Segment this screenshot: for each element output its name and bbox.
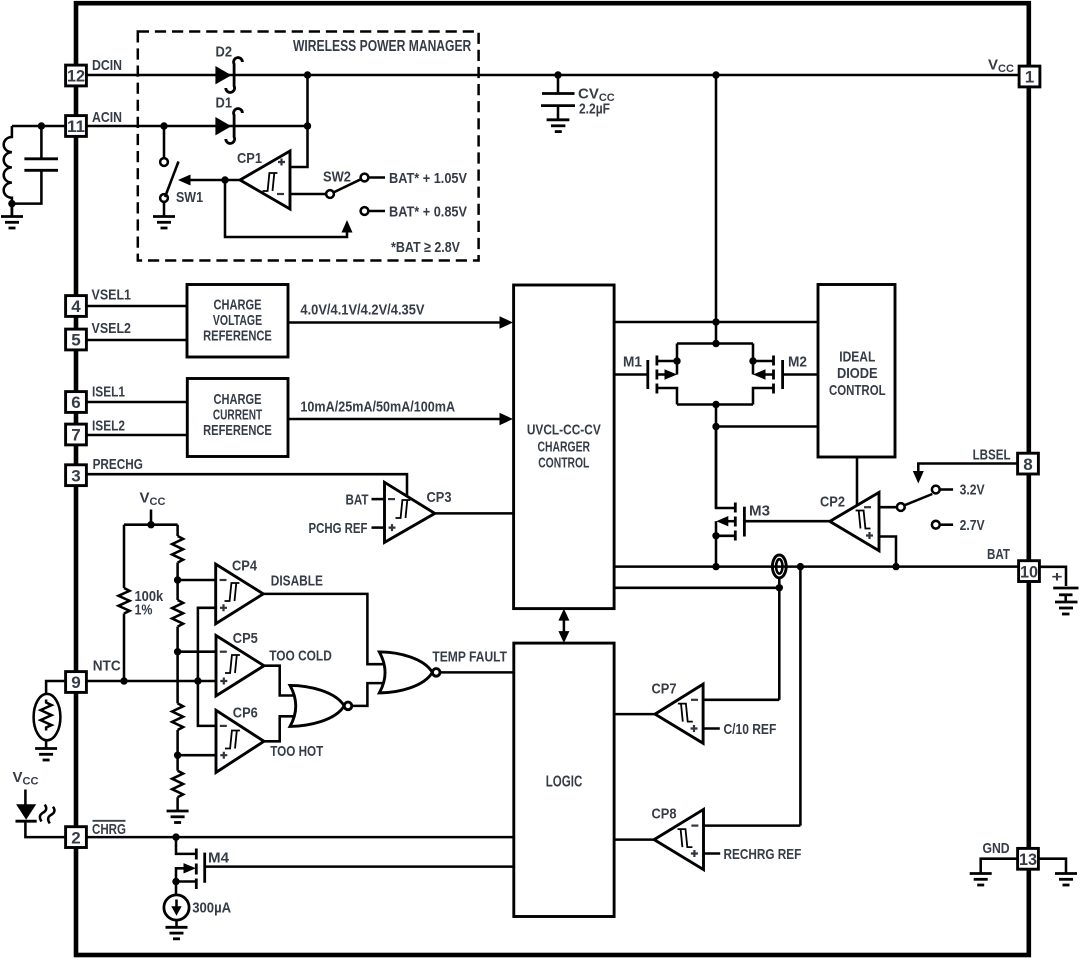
- block IDEAL DIODE CONTROL: [818, 285, 895, 458]
- ground (divider chain): [167, 811, 189, 823]
- svg-text:PCHG REF: PCHG REF: [309, 520, 368, 537]
- svg-text:300µA: 300µA: [192, 899, 231, 916]
- svg-text:VOLTAGE: VOLTAGE: [213, 312, 262, 329]
- resistor divider RA: [172, 536, 183, 563]
- wire right branch to divider chain: [176, 525, 179, 536]
- wire ACIN from pin 11 to diode node: [88, 125, 308, 128]
- wire CP7 minus to sense ring: [703, 699, 779, 702]
- wire pin 9 to thermistor: [46, 681, 64, 695]
- block LOGIC: [514, 643, 614, 916]
- wire CP7 plus stub: [703, 727, 720, 730]
- wire CP3 minus input stub: [372, 498, 385, 501]
- pin 3 PRECHG: [66, 465, 87, 486]
- switch SW1: [160, 158, 178, 202]
- op-amp CP1 (comparator, output drives SW1): [240, 151, 290, 209]
- svg-text:7: 7: [71, 426, 80, 445]
- wire CP3 output to UVCL: [435, 512, 514, 515]
- wire CP8 minus up to BAT rail: [799, 567, 802, 826]
- wire CP2 plus down to BAT rail: [879, 537, 896, 567]
- node bottom loop center: [712, 401, 719, 408]
- svg-text:CONTROL: CONTROL: [829, 382, 886, 399]
- wire VSEL2: [88, 339, 188, 342]
- node CP4 minus tap: [174, 576, 181, 583]
- wire to IDEAL DIODE CONTROL (bottom): [716, 425, 818, 428]
- wire VCC to LED: [24, 790, 27, 805]
- svg-text:WIRELESS POWER MANAGER: WIRELESS POWER MANAGER: [293, 38, 472, 55]
- wire CP5 output to NOR1: [264, 666, 298, 696]
- node DCIN-D2 junction: [304, 71, 311, 78]
- svg-text:NTC: NTC: [93, 658, 121, 675]
- svg-text:DCIN: DCIN: [92, 57, 122, 74]
- op-amp CP2 (low battery comparator): [830, 492, 879, 550]
- inductor L1 (coupling coil): [4, 126, 12, 204]
- pin 9 NTC: [66, 672, 87, 693]
- svg-text:M3: M3: [749, 503, 770, 520]
- svg-text:5: 5: [71, 331, 80, 350]
- wire pin 13 to right ground: [1039, 859, 1066, 873]
- current sense ring on BAT rail: [770, 555, 788, 578]
- svg-text:1: 1: [1025, 68, 1034, 87]
- wire CHRG line to LOGIC: [88, 836, 514, 839]
- svg-text:CP8: CP8: [652, 806, 677, 823]
- transistor M1 (PMOS): [614, 356, 677, 405]
- arrow to SW2: [342, 220, 353, 233]
- svg-text:1%: 1%: [135, 602, 153, 619]
- transistor M2 (PMOS): [753, 356, 818, 405]
- svg-text:9: 9: [71, 673, 80, 692]
- wire CP8 output to LOGIC: [614, 838, 654, 841]
- svg-text:IDEAL: IDEAL: [839, 348, 875, 365]
- svg-text:4.0V/4.1V/4.2V/4.35V: 4.0V/4.1V/4.2V/4.35V: [300, 302, 424, 319]
- wire CP1 minus input to SW2: [290, 193, 326, 196]
- battery cell BT1: [1053, 588, 1078, 601]
- resistor 100k 1%: [119, 588, 130, 614]
- svg-text:CURRENT: CURRENT: [213, 407, 262, 424]
- svg-text:11: 11: [67, 117, 85, 136]
- node VCC rail to M1/M2 branch: [712, 71, 719, 78]
- node CP2 plus junction on BAT rail: [892, 563, 899, 570]
- wire ACIN segment left of pin 11: [12, 125, 65, 128]
- svg-text:REFERENCE: REFERENCE: [203, 422, 272, 439]
- svg-text:RECHRG REF: RECHRG REF: [724, 846, 802, 863]
- svg-text:4: 4: [71, 297, 81, 316]
- svg-text:VSEL1: VSEL1: [92, 287, 132, 304]
- node L1-C1 bottom junction: [8, 200, 15, 207]
- wire NTC line (pin 9 to CP5 plus): [88, 680, 217, 683]
- transistor M3 (PMOS): [716, 427, 830, 567]
- current source 300uA: [164, 882, 189, 927]
- wire ISEL2: [88, 434, 188, 437]
- wire ISEL1: [88, 401, 188, 404]
- svg-text:CP3: CP3: [427, 489, 452, 506]
- node M1 drain junction: [673, 357, 680, 364]
- wire VCC rail (DCIN to VCC pin): [88, 74, 1019, 77]
- svg-text:BAT: BAT: [987, 546, 1010, 563]
- pin 2 CHRG: [66, 827, 87, 848]
- wire CP1 feedback to SW2 arrow: [225, 180, 347, 237]
- pin 13 GND: [1018, 848, 1039, 869]
- wire bottom loop down to ideal diode line: [715, 405, 718, 509]
- ground (CVCC): [547, 120, 570, 132]
- wire LED to pin 2: [25, 822, 64, 837]
- svg-text:BAT* + 0.85V: BAT* + 0.85V: [389, 204, 467, 221]
- svg-text:VSEL2: VSEL2: [92, 320, 132, 337]
- wire VSEL1: [88, 305, 188, 308]
- wire charge current setting to UVCL control: [288, 418, 505, 421]
- svg-text:DISABLE: DISABLE: [271, 572, 323, 589]
- resistor divider RB: [172, 600, 183, 627]
- ground (thermistor): [35, 749, 57, 761]
- wire CP6 plus input: [178, 754, 216, 757]
- wire CP2 minus to selector: [879, 506, 897, 509]
- svg-text:DIODE: DIODE: [837, 365, 878, 382]
- svg-text:2: 2: [71, 828, 80, 847]
- wire M1/M2 bottom loop: [677, 403, 753, 406]
- wire NOR1 output to NOR2: [352, 683, 388, 706]
- svg-text:10: 10: [1020, 562, 1038, 581]
- ground (coil network): [1, 204, 23, 228]
- node M4 drain junction: [172, 833, 179, 840]
- svg-text:CONTROL: CONTROL: [538, 455, 589, 472]
- wire CP3 plus input stub: [372, 526, 385, 529]
- capacitor CVCC 2.2uF: [541, 75, 575, 119]
- thermistor RNTC: [34, 694, 61, 740]
- wire M1/M2 top loop: [677, 342, 753, 345]
- svg-text:2.2µF: 2.2µF: [579, 101, 610, 118]
- wire CP8 minus to BAT rail: [704, 824, 801, 827]
- pin 8 LBSEL: [1018, 453, 1039, 474]
- svg-text:TEMP FAULT: TEMP FAULT: [432, 648, 507, 665]
- ground (pin 13 left): [970, 874, 992, 886]
- node CP8 sense junction on BAT rail: [797, 563, 804, 570]
- svg-text:6: 6: [71, 393, 80, 412]
- svg-text:CP2: CP2: [820, 494, 845, 511]
- wire CP4 plus / CP6 minus tie line: [198, 608, 216, 726]
- op-amp CP6 (too hot comparator): [216, 710, 264, 772]
- wire CP6 output to NOR1: [264, 716, 298, 741]
- wire M2 drain/body node vertical: [752, 344, 755, 375]
- wire x716 down to M1/M2 top loop: [715, 322, 718, 344]
- svg-text:PRECHG: PRECHG: [93, 456, 143, 473]
- node top rail junction at x716: [712, 318, 719, 325]
- node M4 source junction: [172, 878, 179, 885]
- arrow to SW1: [178, 175, 191, 186]
- svg-text:M2: M2: [788, 354, 807, 371]
- svg-text:CP5: CP5: [233, 630, 258, 647]
- wire CP4 output (DISABLE) to NOR2: [263, 594, 388, 664]
- svg-text:10mA/25mA/50mA/100mA: 10mA/25mA/50mA/100mA: [300, 399, 455, 416]
- ground (SW1): [153, 217, 175, 229]
- capacitor C1 (resonant cap): [12, 126, 58, 204]
- switch SW2: [326, 174, 385, 215]
- block CHARGE VOLTAGE REFERENCE: [187, 285, 288, 358]
- wire pin 10 to battery: [1040, 567, 1066, 586]
- diode D1 (Schottky on ACIN): [215, 109, 242, 144]
- block UVCL-CC-CV CHARGER CONTROL: [514, 285, 615, 609]
- svg-text:CP6: CP6: [233, 705, 258, 722]
- wire CP8 plus stub: [704, 852, 721, 855]
- wire left branch to 100k: [123, 525, 126, 588]
- svg-text:CHRG: CHRG: [92, 821, 126, 838]
- wire TEMP FAULT to LOGIC: [440, 671, 514, 674]
- svg-text:D2: D2: [216, 44, 233, 61]
- op-amp CP4 (disable comparator): [216, 564, 264, 624]
- node sense line junction: [776, 584, 783, 591]
- node top loop center: [712, 340, 719, 347]
- svg-text:BAT: BAT: [346, 492, 369, 509]
- pin 5 VSEL2: [66, 329, 87, 350]
- WIRELESS POWER MANAGER dashed box: [138, 32, 479, 261]
- node SW1 branch junction on ACIN: [160, 122, 167, 129]
- wire charge voltage setting to UVCL control: [288, 321, 505, 324]
- wire SW1 to ground: [163, 202, 166, 216]
- diode D2 (Schottky on DCIN): [215, 58, 242, 93]
- pin 6 ISEL1: [66, 392, 87, 413]
- node CP5 minus tap: [174, 648, 181, 655]
- svg-text:*BAT ≥ 2.8V: *BAT ≥ 2.8V: [391, 239, 460, 256]
- node CVCC junction on VCC rail: [554, 71, 561, 78]
- wire VCC rail down to ideal diode path: [715, 75, 718, 322]
- svg-text:M4: M4: [208, 849, 230, 866]
- wire CP7 output to LOGIC: [614, 713, 655, 716]
- op-amp CP7 (C/10 comparator): [655, 684, 703, 743]
- svg-text:CP1: CP1: [237, 150, 262, 167]
- svg-text:D1: D1: [216, 95, 233, 112]
- svg-text:LOGIC: LOGIC: [546, 773, 583, 790]
- svg-text:CHARGER: CHARGER: [538, 439, 591, 456]
- pin 12 DCIN: [66, 65, 87, 86]
- wire CP1 output to SW1 arrow: [189, 179, 240, 182]
- logic gate NOR2 (temp fault): [379, 652, 440, 693]
- wire LBSEL to selector arrow: [918, 464, 1017, 473]
- wire RD to ground: [176, 797, 179, 810]
- svg-text:ISEL2: ISEL2: [92, 418, 125, 435]
- node CP1 output junction: [221, 176, 228, 183]
- bidirectional arrow UVCL-LOGIC: [558, 609, 569, 644]
- pin 11 ACIN: [66, 116, 87, 137]
- wire VCC stub to divider: [150, 510, 153, 525]
- wire BAT rail: [614, 565, 1018, 568]
- node M2 drain junction: [749, 357, 756, 364]
- wire divider top rail: [124, 523, 178, 526]
- wire thermistor to ground: [45, 740, 48, 748]
- arrow LBSEL selector: [913, 471, 924, 484]
- node M3 to BAT rail: [712, 563, 719, 570]
- svg-text:LBSEL: LBSEL: [973, 446, 1011, 463]
- wire RA to CP4 tap: [176, 563, 179, 600]
- node divider top junction: [147, 521, 154, 528]
- wire PRECHG: [88, 474, 408, 497]
- svg-text:3: 3: [71, 466, 80, 485]
- node C1 junction on ACIN: [38, 122, 45, 129]
- node ACIN-D1 junction: [304, 122, 311, 129]
- LED charge indicator: [16, 804, 56, 824]
- svg-text:TOO COLD: TOO COLD: [269, 647, 332, 664]
- wire vertical joining DCIN/ACIN/CP1 node: [290, 75, 308, 167]
- wire UVCL to IDEAL DIODE CONTROL (top): [614, 321, 818, 324]
- svg-text:CHARGE: CHARGE: [214, 296, 262, 313]
- op-amp CP5 (too cold comparator): [216, 636, 264, 696]
- svg-text:BAT* + 1.05V: BAT* + 1.05V: [389, 170, 467, 187]
- wire sense ring to CP7 minus: [778, 578, 781, 700]
- svg-text:C/10 REF: C/10 REF: [724, 721, 777, 738]
- wire RC to CP6 tap: [176, 730, 179, 771]
- arrow into UVCL (voltage): [500, 316, 514, 328]
- wire pin 13 to left ground: [981, 859, 1017, 873]
- resistor divider RC: [172, 703, 183, 730]
- svg-text:UVCL-CC-CV: UVCL-CC-CV: [527, 422, 601, 439]
- svg-text:CP4: CP4: [232, 558, 258, 575]
- arrow into UVCL (current): [500, 413, 514, 425]
- svg-text:SW2: SW2: [323, 169, 351, 186]
- ground (pin 13 right): [1055, 874, 1077, 886]
- resistor divider RD: [172, 771, 183, 798]
- node NTC-100k junction: [120, 677, 127, 684]
- svg-text:GND: GND: [983, 840, 1010, 857]
- switch LB select: [897, 486, 953, 529]
- op-amp CP3 (precharge comparator): [385, 482, 435, 542]
- node M1/M2 source to IDEAL DIODE junction: [712, 423, 719, 430]
- pin 10 BAT: [1019, 561, 1040, 582]
- wire ACIN to SW1: [163, 126, 166, 158]
- node NTC-CP4/CP6 junction: [194, 677, 201, 684]
- node CP6 plus tap: [174, 752, 181, 759]
- ground (current source): [166, 927, 188, 939]
- wire IDEAL DIODE CONTROL to CP2: [856, 457, 859, 507]
- pin 4 VSEL1: [66, 296, 87, 317]
- op-amp CP8 (recharge comparator): [654, 809, 703, 869]
- svg-text:ACIN: ACIN: [92, 109, 122, 126]
- wire CP5 minus input: [178, 650, 216, 653]
- wire RB to CP5 tap: [176, 627, 179, 704]
- node M3 source/body junction: [712, 532, 719, 539]
- wire 100k to NTC line: [123, 614, 126, 682]
- svg-text:REFERENCE: REFERENCE: [203, 327, 272, 344]
- svg-text:CHARGE: CHARGE: [214, 391, 262, 408]
- wire M1 drain/body node vertical: [676, 344, 679, 375]
- svg-text:3.2V: 3.2V: [960, 482, 985, 499]
- wire UVCL charger sense line: [614, 587, 779, 590]
- svg-text:SW1: SW1: [176, 189, 203, 206]
- svg-text:ISEL1: ISEL1: [92, 383, 125, 400]
- svg-text:TOO HOT: TOO HOT: [270, 743, 323, 760]
- transistor M4 (NMOS pulldown): [176, 837, 514, 889]
- svg-text:2.7V: 2.7V: [960, 517, 985, 534]
- svg-text:M1: M1: [623, 354, 642, 371]
- svg-text:8: 8: [1023, 455, 1032, 474]
- wire CP4 minus input: [178, 579, 216, 582]
- svg-text:12: 12: [67, 67, 85, 86]
- svg-text:+: +: [1052, 569, 1063, 586]
- pin 7 ISEL2: [66, 424, 87, 445]
- svg-text:CP7: CP7: [652, 680, 677, 697]
- logic gate NOR1 (temp window): [290, 685, 352, 726]
- pin 1 VCC: [1019, 66, 1040, 87]
- ground (battery): [1055, 602, 1078, 614]
- svg-text:13: 13: [1019, 850, 1037, 869]
- block CHARGE CURRENT REFERENCE: [187, 379, 288, 457]
